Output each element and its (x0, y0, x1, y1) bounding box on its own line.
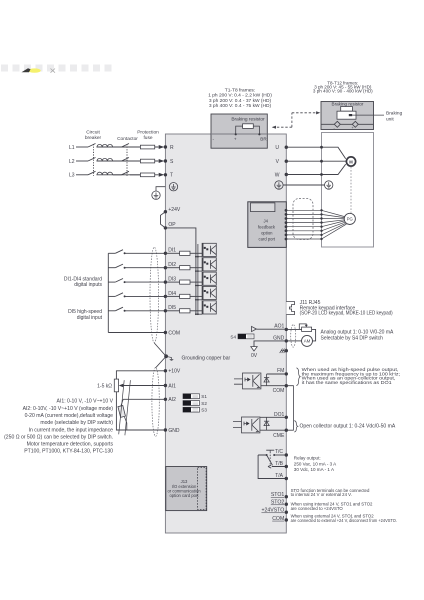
motor M (346, 157, 355, 166)
terminal AI2 (164, 398, 167, 401)
wire resistor to opto DI4 (190, 295, 202, 297)
svg-text:R: R (170, 145, 174, 151)
terminal DO1 (285, 416, 288, 419)
feedback wires J4 to encoder (286, 210, 347, 239)
wire V to motor (286, 160, 346, 162)
terminal OP (164, 226, 167, 229)
svg-text:feedback: feedback (258, 225, 276, 230)
svg-text:STO1: STO1 (271, 492, 285, 498)
wire amp to AO1 (256, 328, 286, 330)
junction dots feedback wires (320, 209, 322, 240)
svg-text:1 ph 200 V: 0.4 - 2.2 kW (HD): 1 ph 200 V: 0.4 - 2.2 kW (HD) (208, 93, 272, 99)
svg-text:GND: GND (168, 428, 180, 434)
fuse R (140, 145, 154, 149)
bracket DO1 note (294, 421, 298, 432)
svg-text:AO1: AO1 (274, 324, 284, 330)
wire pot bottom to GND (116, 392, 165, 430)
potentiometer 1-5k (114, 379, 118, 392)
dashed alternative link arrows (272, 113, 319, 127)
wire L3 row (76, 174, 88, 176)
svg-text:BR: BR (260, 137, 267, 142)
svg-text:J4: J4 (263, 219, 268, 224)
bracket FM note (296, 368, 300, 386)
PE circle drive output (275, 181, 283, 189)
svg-text:S3: S3 (201, 408, 207, 413)
svg-text:(SOP-20 LCD keypad, MDKE-10 LE: (SOP-20 LCD keypad, MDKE-10 LED keypad) (300, 311, 393, 317)
contactor blades (113, 144, 140, 175)
note: T8-T12 frames rating text (313, 80, 373, 93)
svg-text:unit: unit (386, 116, 394, 122)
arrow into S (159, 159, 165, 163)
relay contact T/C (274, 454, 286, 456)
terminal AI1 (164, 384, 167, 387)
svg-text:+24V: +24V (168, 207, 180, 213)
svg-text:are connected to +24VSTO: are connected to +24VSTO (291, 506, 344, 511)
DIP switch S2 (183, 401, 200, 406)
terminal GND analog (164, 428, 167, 431)
svg-text:option: option (261, 231, 273, 236)
fuse T (140, 173, 154, 177)
wire FM (267, 373, 287, 375)
shielded cable ellipse analog (152, 367, 159, 436)
terminal dot + (235, 133, 237, 135)
terminal +24V (164, 210, 167, 213)
svg-text:Braking resistor: Braking resistor (231, 117, 265, 123)
terminal DI5 (164, 309, 167, 312)
grounding copper bar symbol (166, 356, 173, 360)
braking unit icon (337, 107, 356, 120)
wire resistor to opto DI5 (190, 310, 202, 312)
toolbar artifact squares (1, 65, 112, 72)
toolbar highlighter cursor (28, 68, 40, 72)
wire switch to terminal DI4 (125, 295, 166, 297)
wire terminal to resistor DI2 (165, 267, 179, 269)
wire +10V to potentiometer (116, 371, 165, 379)
rheostat loop (299, 324, 306, 330)
svg-text:Grounding copper bar: Grounding copper bar (182, 355, 231, 361)
wire bus to switch DI3 (108, 281, 115, 283)
svg-text:PG: PG (347, 217, 353, 222)
svg-text:3 ph 400 V: 0.4 - 75 kW (HD): 3 ph 400 V: 0.4 - 75 kW (HD) (209, 103, 272, 109)
note: STO description (291, 488, 397, 523)
thermistor (121, 399, 123, 405)
svg-text:Protection: Protection (137, 130, 159, 136)
breaker coils (97, 144, 113, 174)
svg-text:S2: S2 (201, 401, 207, 406)
functional earth terminal (285, 349, 288, 352)
svg-text:30 Vdc, 10 mA - 1 A: 30 Vdc, 10 mA - 1 A (294, 467, 335, 472)
main box top edge over braking box (211, 133, 267, 135)
svg-text:Motor temperature detection, s: Motor temperature detection, supports (27, 442, 114, 448)
resistor DI2 (180, 266, 190, 270)
note: FM output description (302, 367, 400, 386)
svg-text:3 ph 400 V: 90 - 400 kW (HD): 3 ph 400 V: 90 - 400 kW (HD) (313, 89, 373, 94)
svg-text:M: M (349, 159, 353, 164)
svg-text:DI3: DI3 (168, 277, 176, 283)
svg-text:DI2: DI2 (168, 262, 176, 268)
svg-text:S4: S4 (230, 334, 236, 339)
amp buffer triangle (252, 326, 257, 331)
braking resistor box (T1-T8) (211, 114, 267, 148)
svg-text:Braking: Braking (386, 111, 403, 117)
svg-text:L3: L3 (69, 173, 75, 179)
relay rail to T/A (258, 455, 286, 479)
input phase rows L1 L2 L3 (76, 144, 159, 175)
svg-text:COM: COM (168, 330, 180, 336)
DI switch bus (107, 253, 109, 332)
svg-text:T/C: T/C (275, 449, 283, 455)
svg-text:(250 Ω or 500 Ω) can be select: (250 Ω or 500 Ω) can be selected by DIP … (4, 435, 113, 441)
wire terminal to resistor DI1 (165, 252, 179, 254)
svg-text:Braking resistor: Braking resistor (332, 101, 364, 106)
terminal R (164, 145, 167, 148)
wire GND to 0V (254, 341, 286, 347)
terminal DI1 (164, 252, 167, 255)
braking unit box (T8-T12) (321, 102, 374, 130)
svg-text:PT100, PT1000, KTY-84-130, PTC: PT100, PT1000, KTY-84-130, PTC-130 (24, 449, 113, 455)
svg-text:In current mode, the input imp: In current mode, the input impedance (29, 427, 114, 433)
0V arrow (251, 347, 257, 351)
motor enclosure box (322, 133, 374, 248)
svg-text:Open collector output 1: 0-24: Open collector output 1: 0-24 Vdc/0-50 m… (300, 423, 396, 429)
svg-text:J13: J13 (181, 479, 188, 484)
svg-text:3 ph 200 V: 0.4 - 37 kW (HD): 3 ph 200 V: 0.4 - 37 kW (HD) (209, 98, 272, 104)
terminal COM (285, 384, 288, 387)
digital input DI5 row (108, 301, 216, 315)
wire DO1 (260, 416, 286, 418)
RJ45 keypad port J11 (286, 302, 294, 315)
svg-text:DI5: DI5 (168, 305, 176, 311)
twisted pair slashes (119, 380, 131, 435)
shielded cable ellipse DI (150, 247, 159, 343)
wire resistor to opto DI3 (190, 281, 202, 283)
note: relay output spec (294, 455, 337, 472)
terminal +24VSTO (285, 511, 288, 514)
optocoupler FM output (234, 373, 261, 389)
wire COM row (108, 332, 165, 334)
svg-text:breaker: breaker (85, 135, 102, 141)
wire resistor to + terminal (236, 126, 243, 135)
wire W to motor (286, 164, 345, 174)
svg-text:DI1: DI1 (168, 248, 176, 254)
shield drain DI cable (154, 343, 166, 356)
terminal DI2 (164, 266, 167, 269)
svg-text:W: W (275, 172, 280, 178)
note: T1-T8 frames rating text (208, 88, 272, 110)
arrow into T (159, 173, 165, 177)
svg-text:T/A: T/A (275, 473, 283, 479)
wire bus to switch DI1 (108, 252, 115, 254)
svg-text:CME: CME (273, 433, 285, 439)
svg-text:COM: COM (273, 388, 285, 394)
wire bus to switch DI4 (108, 295, 115, 297)
PE circle drive input (169, 183, 177, 191)
braking resistor element (243, 124, 254, 129)
breaker mechanical link (93, 144, 95, 176)
diamond terminal right (352, 121, 358, 127)
svg-text:AI1: AI1 (168, 383, 176, 389)
relay contact T/B (268, 465, 286, 468)
wire GND loop to meter (286, 340, 301, 342)
switch DI3 (115, 279, 123, 283)
svg-text:AM: AM (304, 339, 311, 344)
svg-text:OP: OP (168, 222, 176, 228)
terminal dot BR (258, 133, 260, 135)
svg-text:0-20 mA (current mode),default: 0-20 mA (current mode),default voltage (25, 413, 114, 419)
svg-text:digital input: digital input (77, 315, 103, 321)
switch DI5 (115, 307, 123, 311)
terminal COM STO (285, 518, 288, 521)
svg-text:COM: COM (272, 516, 284, 522)
resistor DI5 (180, 309, 190, 313)
optocoupler DI1 (202, 243, 216, 256)
wire terminal to resistor DI3 (165, 281, 179, 283)
digital input DI3 row (108, 272, 216, 286)
digital input DI2 row (108, 258, 216, 272)
feedback cable sleeve (293, 199, 313, 240)
svg-text:STO2: STO2 (271, 500, 285, 506)
svg-text:to internal 24 V or external 2: to internal 24 V or external 24 V. (291, 492, 352, 497)
terminal CME (285, 429, 288, 432)
DIP switch S1 (183, 394, 200, 399)
switch DI1 (115, 250, 123, 254)
svg-text:fuse: fuse (143, 135, 152, 141)
jumper +24V to OP (161, 212, 166, 228)
wire bus to switch DI5 (108, 310, 115, 312)
DIP switch S3 (183, 407, 200, 412)
leader to Braking unit label (352, 114, 384, 116)
svg-text:Contactor: Contactor (117, 136, 138, 142)
svg-text:GND: GND (273, 335, 285, 341)
wire AO1 loop (286, 329, 315, 341)
digital input DI4 row (108, 286, 216, 300)
wire resistor to opto DI2 (190, 267, 202, 269)
note: AI specifications (4, 399, 113, 455)
svg-text:mode (selectable by DIP switch: mode (selectable by DIP switch) (40, 420, 113, 426)
terminal FM (285, 372, 288, 375)
wiper wire to AI1 (122, 385, 165, 387)
terminal GND (285, 339, 288, 342)
note: Circuit breaker (85, 130, 159, 143)
dashed link motor to encoder (350, 167, 352, 213)
svg-text:AI2: 0-10V, -10 V~+10 V (volta: AI2: 0-10V, -10 V~+10 V (voltage mode) (23, 406, 114, 412)
svg-text:T1-T8 frames:: T1-T8 frames: (225, 88, 255, 94)
zener diode FM (266, 374, 268, 386)
svg-text:option card port: option card port (169, 493, 199, 498)
svg-text:T/B: T/B (275, 461, 283, 467)
optocoupler DI4 (202, 286, 216, 299)
svg-text:Relay output:: Relay output: (294, 455, 321, 460)
optocoupler DO1 output (233, 417, 260, 433)
terminal T (164, 173, 167, 176)
wire resistor to opto DI1 (190, 252, 202, 254)
wire PE to motor PE (283, 184, 324, 186)
svg-text:it has the same specifications: it has the same specifications as DO1 (302, 380, 392, 386)
rail line (321, 123, 374, 125)
rheostat (302, 327, 312, 331)
svg-text:FM: FM (277, 368, 284, 374)
fuse S (140, 159, 154, 163)
wire input PE to drive (156, 187, 165, 191)
optocoupler DI5 (202, 301, 216, 314)
shield ellipse AO1 (291, 325, 296, 348)
wire terminal to resistor DI4 (165, 295, 179, 297)
switch DI4 (115, 293, 123, 297)
svg-text:AI2: AI2 (168, 397, 176, 403)
PE circle input side (152, 191, 160, 199)
wire switch to terminal DI2 (125, 267, 166, 269)
svg-text:+10V: +10V (168, 369, 180, 375)
terminal DI4 (164, 295, 167, 298)
svg-text:L1: L1 (69, 145, 75, 151)
svg-text:250 Vac, 10 mA - 3 A: 250 Vac, 10 mA - 3 A (294, 461, 337, 466)
zener diode DO1 (266, 417, 268, 430)
wire opto return to rail DI1 (196, 256, 202, 258)
resistor DI3 (180, 280, 190, 284)
meter AM (302, 335, 313, 346)
wire switch to terminal DI5 (125, 310, 166, 312)
junction dots motor box edge (320, 146, 323, 149)
wire opto return to rail DI3 (196, 285, 202, 287)
wire U to motor (286, 147, 345, 159)
wire terminal to resistor DI5 (165, 310, 179, 312)
optocoupler DI3 (202, 272, 216, 285)
encoder PG (344, 213, 355, 224)
wire COM row (261, 385, 286, 387)
svg-text:digital inputs: digital inputs (74, 282, 102, 288)
svg-text:AI1: 0-10 V, -10 V~+10 V: AI1: 0-10 V, -10 V~+10 V (57, 399, 114, 405)
option card port J13 (166, 467, 207, 511)
svg-text:+24VSTO: +24VSTO (261, 508, 284, 514)
terminal +10V (164, 369, 167, 372)
wire opto return to rail DI5 (196, 313, 202, 315)
svg-text:U: U (275, 145, 279, 151)
jumper COM to CME (286, 386, 293, 431)
shield drain analog cable (156, 356, 167, 368)
drive main box (165, 134, 286, 533)
terminal STO1 (285, 495, 288, 498)
svg-text:+: + (234, 137, 237, 142)
svg-text:card port: card port (259, 236, 276, 241)
wire opto return to rail DI2 (196, 270, 202, 272)
resistor DI1 (180, 251, 190, 255)
wire L1 row (76, 146, 88, 148)
terminal AO1 (285, 328, 288, 331)
svg-text:1-5 kΩ: 1-5 kΩ (97, 383, 112, 389)
J4 terminal dots (285, 209, 288, 241)
resistor DI4 (180, 294, 190, 298)
arrow into R (159, 145, 165, 149)
relay actuator dashed (269, 452, 271, 466)
wire L2 row (76, 160, 88, 162)
grounding node (164, 354, 168, 358)
svg-text:T: T (170, 173, 173, 179)
svg-text:0V: 0V (251, 353, 258, 359)
wire bus to switch DI2 (108, 267, 115, 269)
relay armature bar (266, 450, 274, 452)
wire CME row (260, 429, 286, 431)
diamond terminal left (334, 121, 340, 127)
svg-text:S1: S1 (201, 394, 207, 399)
switch DI2 (115, 264, 123, 268)
svg-text:DO1: DO1 (274, 412, 285, 418)
wire switch to terminal DI3 (125, 281, 166, 283)
terminal COM (164, 331, 167, 334)
wire resistor to BR terminal (253, 126, 259, 135)
feedback option card J4 (248, 202, 286, 248)
wire opto return to rail DI4 (196, 299, 202, 301)
svg-text:Circuit: Circuit (86, 130, 100, 136)
svg-text:are connected to external +24: are connected to external +24 V, disconn… (291, 518, 397, 523)
digital input DI1 row (108, 243, 216, 257)
svg-text:L2: L2 (69, 159, 75, 165)
terminal S (164, 159, 167, 162)
wire AI2 (123, 398, 165, 400)
relay blade (258, 455, 272, 465)
wire OP to DI opto bus (165, 228, 196, 314)
optocoupler DI2 (202, 258, 216, 271)
PE circle motor (325, 181, 333, 189)
terminal STO2 (285, 503, 288, 506)
wire switch to terminal DI1 (125, 252, 166, 254)
terminal DI3 (164, 280, 167, 283)
svg-text:DI4: DI4 (168, 291, 176, 297)
contactor mechanical link (126, 144, 128, 176)
svg-text:Selectable by S4 DIP switch: Selectable by S4 DIP switch (321, 335, 384, 341)
